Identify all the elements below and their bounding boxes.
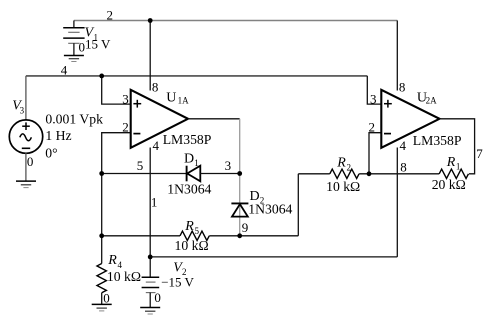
source V3	[9, 120, 42, 153]
wire U1A pin3 branch	[102, 76, 131, 104]
wire U2A pin2 branch	[369, 133, 381, 174]
wire R2 right to R1 (net 8)	[359, 173, 439, 175]
svg-text:1: 1	[151, 194, 158, 209]
resistor R2	[330, 169, 359, 178]
wire R4 bottom to ground	[101, 293, 103, 305]
wire R5 right to node 9 riser	[209, 235, 298, 237]
wire U2A output (net 7)	[440, 119, 475, 174]
svg-text:4: 4	[400, 138, 407, 153]
U2A pin 4 stub	[396, 148, 398, 257]
svg-text:0: 0	[27, 154, 34, 169]
ground (R4)	[92, 304, 112, 311]
svg-text:R: R	[336, 156, 346, 171]
svg-text:8: 8	[400, 159, 407, 174]
svg-text:10 kΩ: 10 kΩ	[107, 269, 141, 284]
wire net5 vertical down to R5/R4 column	[101, 174, 103, 264]
wire D1 anode to node 3	[200, 173, 239, 175]
junction dot node 3	[237, 171, 242, 176]
svg-text:10 kΩ: 10 kΩ	[326, 179, 360, 194]
ground (V3)	[16, 181, 36, 188]
svg-text:0.001 Vpk: 0.001 Vpk	[45, 112, 103, 127]
battery V1	[63, 21, 84, 56]
svg-text:5: 5	[137, 158, 144, 173]
junction dot R5/R4 column	[99, 233, 104, 238]
svg-text:20 kΩ: 20 kΩ	[432, 177, 466, 192]
diode D2	[231, 203, 248, 216]
svg-text:U: U	[166, 91, 176, 106]
junction dot node 9	[237, 233, 242, 238]
svg-text:0°: 0°	[45, 145, 57, 160]
wire U1A pin2 branch	[102, 133, 131, 174]
wire U1A output vertical (gray, net 3 through D2)	[239, 119, 241, 236]
svg-text:3: 3	[20, 105, 25, 115]
svg-text:10 kΩ: 10 kΩ	[175, 238, 209, 253]
wire U1A output	[188, 118, 240, 120]
svg-text:5: 5	[195, 226, 200, 236]
resistor R1	[439, 169, 468, 178]
svg-text:8: 8	[399, 79, 406, 94]
svg-text:2: 2	[107, 8, 114, 23]
wire +15V top rail (net 2)	[74, 20, 397, 22]
wire net5/net9 horizontal (R5 row)	[102, 235, 180, 237]
wire V3 top stub	[25, 76, 27, 120]
svg-text:0: 0	[154, 290, 161, 305]
svg-text:4: 4	[153, 138, 160, 153]
svg-text:1 Hz: 1 Hz	[45, 128, 71, 143]
svg-text:0: 0	[79, 39, 86, 54]
wire V3 bottom stub	[25, 153, 27, 181]
svg-text:1: 1	[194, 158, 199, 168]
junction dot bottom rail / V2	[148, 255, 153, 260]
resistor R5	[180, 231, 209, 240]
svg-text:8: 8	[152, 79, 159, 94]
svg-text:2: 2	[369, 120, 376, 135]
diode D1	[187, 166, 201, 182]
svg-text:LM358P: LM358P	[163, 132, 212, 147]
svg-text:3: 3	[122, 92, 129, 107]
wire -15V bottom rail (net 1)	[150, 256, 397, 258]
svg-text:1A: 1A	[178, 96, 190, 106]
svg-text:R: R	[446, 155, 456, 170]
svg-text:1N3064: 1N3064	[248, 202, 292, 217]
U2A plus input glyph	[384, 100, 392, 108]
svg-text:R: R	[107, 253, 117, 268]
svg-text:15 V: 15 V	[85, 36, 111, 51]
svg-text:3: 3	[225, 158, 232, 173]
junction dot net4 / U1A pin3	[99, 74, 104, 79]
svg-text:LM358P: LM358P	[413, 133, 462, 148]
battery V2	[142, 257, 160, 308]
svg-text:1N3064: 1N3064	[167, 182, 211, 197]
svg-text:2A: 2A	[426, 96, 438, 106]
ground (V1)	[64, 56, 84, 62]
wire node5 to D1	[102, 173, 187, 175]
wire U2A pin3 branch	[367, 76, 381, 104]
U1A pin 4 stub down to -15V rail	[149, 148, 151, 257]
op-amp U2A triangle	[381, 90, 439, 148]
svg-text:D: D	[184, 151, 194, 166]
ground (V2)	[140, 308, 160, 315]
resistor R4	[97, 264, 106, 293]
svg-text:1: 1	[456, 162, 461, 172]
wire node9 riser to R2 row	[297, 174, 299, 236]
junction dot top rail / U1A pin8	[148, 18, 153, 23]
svg-text:2: 2	[122, 120, 129, 135]
U1A minus input glyph	[133, 133, 140, 135]
U2A pin 8 stub	[396, 21, 398, 91]
svg-text:0: 0	[103, 291, 110, 306]
svg-text:7: 7	[476, 146, 483, 161]
U2A minus input glyph	[384, 133, 391, 135]
junction dot net 8 / U2A pin2	[367, 171, 372, 176]
svg-text:2: 2	[347, 162, 352, 172]
svg-text:−15 V: −15 V	[161, 275, 194, 290]
svg-text:9: 9	[242, 220, 249, 235]
U1A plus input glyph	[133, 100, 141, 108]
junction dot node 5	[99, 171, 104, 176]
wire net 4 horizontal	[26, 75, 367, 77]
op-amp U1A triangle	[131, 90, 188, 148]
svg-text:3: 3	[370, 92, 377, 107]
svg-text:R: R	[184, 219, 194, 234]
wire net 9/8 row to R2	[298, 173, 330, 175]
U1A pin 8 stub	[149, 21, 151, 91]
